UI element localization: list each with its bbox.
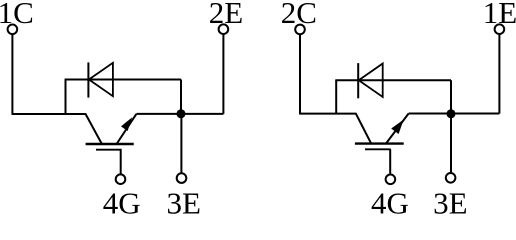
svg-text:2E: 2E (209, 0, 243, 30)
wire branch drop to node (180, 80, 182, 114)
transistor Q1 body bar (86, 143, 134, 145)
transistor Q1 gate bar (96, 149, 122, 151)
wire gate drop right (389, 149, 391, 174)
wire collector rail right (299, 113, 356, 115)
terminal 3E left (177, 173, 187, 183)
wire diode branch left (65, 79, 181, 81)
wire 1E riser (498, 35, 500, 114)
transistor Q1 emitter diagonal (117, 114, 136, 144)
wire diode riser right (335, 80, 337, 113)
wire 1C drop (11, 35, 13, 114)
wire diode riser left (65, 80, 67, 115)
transistor Q2 gate bar (365, 148, 391, 150)
diode D2 cathode bar (357, 63, 359, 98)
svg-text:4G: 4G (371, 185, 409, 214)
junction dot right (447, 109, 456, 118)
terminal 4G left (116, 174, 126, 184)
transistor Q1 emitter arrow (121, 117, 132, 131)
terminal 1E (495, 24, 505, 34)
terminal 2C (295, 25, 305, 35)
diode D1 triangle (89, 63, 113, 96)
wire gate drop left (120, 150, 122, 174)
wire branch drop to node right (450, 80, 452, 114)
transistor Q2 collector diagonal (356, 113, 372, 144)
terminal 2E (219, 24, 229, 34)
terminal 1C (8, 25, 18, 35)
diode D2 triangle (359, 64, 383, 97)
wire 2C drop (299, 35, 301, 114)
wire collector rail left (12, 113, 86, 115)
junction dot left (177, 109, 186, 118)
wire emitter rail left (136, 113, 223, 115)
transistor Q2 body bar (355, 142, 404, 144)
terminal 3E right (446, 173, 456, 183)
svg-text:1C: 1C (0, 0, 34, 30)
wire 3E drop left (180, 114, 182, 173)
transistor Q2 emitter diagonal (386, 114, 409, 144)
svg-text:4G: 4G (103, 185, 141, 214)
svg-text:3E: 3E (166, 185, 200, 214)
terminal 4G right (386, 175, 396, 185)
wire emitter rail right (409, 113, 500, 115)
diode D1 cathode bar (87, 62, 89, 97)
transistor Q1 collector diagonal (85, 114, 101, 144)
wire 2E riser (222, 35, 224, 114)
wire diode branch right (335, 79, 451, 81)
svg-text:3E: 3E (433, 185, 467, 214)
svg-text:1E: 1E (483, 0, 516, 30)
wire 3E drop right (450, 114, 452, 173)
transistor Q2 emitter arrow (391, 120, 403, 134)
